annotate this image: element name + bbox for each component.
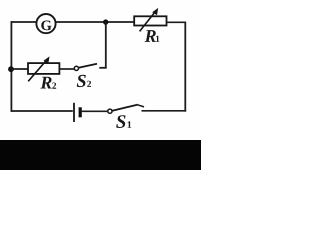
- label G: [41, 21, 51, 31]
- switch S1 blade tip stub: [138, 105, 144, 107]
- resistor R2 arrow: [28, 60, 47, 82]
- wire: vertical from top junction to S2: [105, 22, 107, 68]
- battery BT1 long thin plate: [73, 103, 75, 122]
- label S1 letter: [116, 115, 125, 128]
- wire: R2 to switch S2: [59, 68, 74, 70]
- resistor R1 arrow: [140, 11, 156, 31]
- battery BT1 short thick plate: [79, 107, 82, 117]
- black bar bottom: [0, 140, 201, 170]
- switch S1 blade: [112, 105, 138, 111]
- label S2 subscript: [87, 81, 91, 87]
- wire: top left segment to galvanometer: [11, 21, 37, 23]
- wire: bottom left segment: [11, 110, 73, 112]
- wire: right border vertical: [184, 22, 186, 112]
- switch S2 pivot: [74, 66, 78, 70]
- switch S2 blade: [79, 64, 98, 68]
- wire: top segment from G to R1: [56, 21, 136, 23]
- label R1 subscript: [156, 36, 159, 42]
- node junction dot top: [103, 19, 108, 24]
- label R2 subscript: [52, 83, 56, 89]
- galvanometer U1 circle: [36, 14, 55, 33]
- wire: left border vertical: [10, 21, 12, 112]
- wire: battery to switch S1: [82, 110, 108, 112]
- switch S1 pivot: [108, 109, 112, 113]
- wire: bottom right segment: [142, 110, 187, 112]
- wire: R1 to right border: [167, 21, 187, 23]
- switch S2 fixed contact: [99, 67, 106, 69]
- label R2 letter: [40, 77, 51, 89]
- resistor R2 box: [28, 63, 59, 74]
- resistor R1 box: [134, 16, 166, 25]
- node junction dot left: [8, 66, 14, 72]
- label S1 subscript: [128, 121, 132, 128]
- label R1 letter: [145, 30, 156, 42]
- wire: left border to R2: [11, 68, 28, 70]
- label S2 letter: [77, 75, 86, 87]
